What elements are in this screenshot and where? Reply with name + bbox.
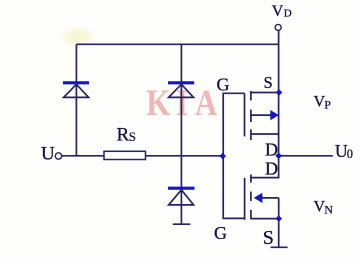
svg-text:D: D	[265, 159, 278, 179]
svg-text:V: V	[272, 3, 284, 20]
svg-text:S: S	[264, 73, 273, 92]
svg-text:D: D	[284, 7, 292, 19]
svg-text:U: U	[41, 143, 55, 164]
svg-text:S: S	[129, 129, 136, 144]
svg-text:A: A	[195, 83, 218, 123]
svg-text:P: P	[324, 97, 331, 111]
svg-text:R: R	[117, 124, 130, 145]
svg-text:K: K	[146, 83, 171, 123]
svg-text:0: 0	[347, 147, 353, 161]
svg-text:D: D	[265, 139, 278, 159]
svg-text:N: N	[324, 202, 333, 216]
svg-text:G: G	[217, 75, 230, 95]
svg-text:S: S	[263, 227, 274, 249]
svg-text:G: G	[214, 223, 227, 243]
